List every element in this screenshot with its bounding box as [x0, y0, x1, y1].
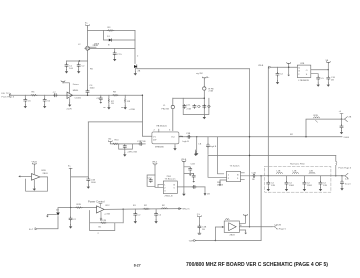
svg-text:700/800 MHZ RF BOARD VER C SCH: 700/800 MHZ RF BOARD VER C SCHEMATIC (PA… — [186, 262, 328, 268]
svg-text:high B: high B — [210, 146, 217, 148]
svg-text:Harmonic Filter: Harmonic Filter — [290, 162, 305, 165]
wire to tx switch — [208, 137, 224, 174]
capacitor C9 — [87, 178, 90, 182]
wire loop — [119, 144, 133, 149]
svg-text:2-B.B: 2-B.B — [344, 137, 350, 139]
capacitor C16 series — [187, 135, 191, 138]
svg-text:1000: 1000 — [91, 182, 97, 184]
svg-text:From Page 5: From Page 5 — [339, 166, 352, 169]
capacitor C15 series — [139, 142, 143, 145]
inductor L1 — [172, 98, 174, 105]
capacitor C7 series — [53, 94, 57, 97]
svg-text:R2B: R2B — [77, 204, 82, 206]
svg-text:2-B: 2-B — [345, 178, 349, 180]
svg-text:C7.5: C7.5 — [117, 54, 122, 56]
capacitor C19 — [149, 179, 152, 183]
ground — [121, 106, 123, 108]
power flag bottom — [197, 216, 201, 218]
svg-text:PA Module: PA Module — [157, 125, 168, 128]
svg-text:MHB2B5: MHB2B5 — [155, 147, 165, 149]
bias filter sub — [108, 141, 112, 143]
wire control rails — [208, 156, 336, 178]
svg-text:2.5B: 2.5B — [209, 91, 214, 93]
op-amp U2 — [32, 174, 41, 181]
node junction arrow — [204, 187, 206, 193]
ground — [113, 57, 116, 61]
svg-text:TX Beacon: TX Beacon — [165, 179, 177, 181]
wire supply — [155, 166, 163, 188]
wire RX down-leg — [335, 156, 337, 176]
ground beacon top — [195, 150, 197, 152]
wire bias vertical — [87, 122, 89, 177]
wire pc input rail — [58, 208, 97, 213]
svg-text:2TXB: 2TXB — [140, 141, 146, 143]
wire beacon out rail — [177, 186, 205, 188]
resistor R8 series — [112, 94, 119, 96]
ground — [239, 230, 245, 232]
capacitor C34 — [155, 209, 157, 213]
capacitor C6 — [44, 95, 46, 98]
ground — [100, 212, 102, 217]
capacitor C35 — [198, 218, 200, 225]
svg-text:2.5B: 2.5B — [187, 109, 192, 111]
resistor R11 — [76, 207, 83, 209]
wire long vertical B — [260, 176, 262, 241]
wire beacon left pins — [158, 184, 163, 187]
node 2TX arrow — [143, 143, 146, 145]
ground — [68, 103, 71, 107]
svg-text:+2.5B: +2.5B — [104, 214, 110, 216]
node junction — [196, 136, 197, 137]
svg-text:2B2-B: 2B2-B — [217, 185, 224, 187]
svg-text:+-2DB: +-2DB — [129, 109, 136, 111]
inductor L8b — [336, 161, 337, 165]
wire driver gnd leg — [69, 99, 71, 103]
node fork out — [341, 118, 342, 119]
svg-text:L7B05B2B: L7B05B2B — [298, 80, 309, 82]
wire to PA input — [142, 95, 152, 136]
inductor L4 — [314, 117, 320, 118]
resistor R1 — [107, 30, 114, 32]
node output arrow — [179, 208, 181, 210]
capacitor C17 — [207, 137, 209, 144]
svg-text:15B1: 15B1 — [307, 185, 313, 187]
resistor R13 — [143, 208, 150, 210]
wire Q1 aux right — [90, 46, 96, 48]
power stub — [340, 114, 343, 120]
IC U4 TX switch — [227, 171, 241, 181]
capacitor C18 series — [252, 174, 256, 177]
svg-text:To Page 5: To Page 5 — [276, 229, 287, 231]
wire long vertical A — [267, 67, 269, 176]
wire top rail — [88, 30, 136, 32]
wire detect rail — [306, 119, 342, 137]
wire — [37, 217, 58, 229]
svg-text:+NR 2.5B: +NR 2.5B — [127, 152, 137, 154]
power flag — [244, 214, 248, 216]
capacitor C20 — [184, 166, 190, 169]
capacitor C12 — [193, 104, 196, 108]
svg-text:2B0B: 2B0B — [93, 45, 99, 47]
svg-text:VR-B: VR-B — [258, 65, 264, 67]
inductor L3 wavy — [180, 135, 183, 138]
capacitor C30 — [320, 176, 322, 182]
svg-text:Driver: Driver — [73, 83, 79, 86]
capacitor C8 — [100, 95, 102, 97]
svg-text:FB2.5B: FB2.5B — [162, 108, 170, 110]
capacitor C32 — [70, 208, 72, 217]
capacitor C22 series — [192, 185, 196, 188]
svg-text:NR-2.5: NR-2.5 — [183, 208, 191, 210]
IC U6 regulator — [297, 65, 311, 77]
ground — [124, 149, 126, 153]
svg-text:2W1: 2W1 — [167, 176, 172, 178]
svg-text:2W01-B: 2W01-B — [165, 195, 173, 197]
svg-text:2-DR: 2-DR — [67, 109, 73, 111]
ground — [33, 180, 35, 187]
wire inner loop — [104, 31, 136, 41]
wire gate rail — [90, 47, 135, 49]
ground — [182, 192, 185, 196]
wire base — [47, 214, 56, 216]
wire regulator input — [271, 66, 297, 68]
ground — [220, 180, 227, 183]
wire source vertical — [87, 51, 89, 90]
inductor L7 — [309, 173, 315, 174]
svg-text:To ant: To ant — [345, 183, 351, 186]
capacitor C5 — [24, 95, 26, 98]
svg-text:high B: high B — [183, 141, 190, 143]
diode CR1 — [109, 39, 112, 42]
wire main RF line — [12, 94, 143, 96]
svg-text:B2B: B2B — [42, 170, 47, 172]
svg-text:2B03: 2B03 — [230, 235, 236, 237]
node antenna arrow — [342, 173, 348, 178]
ground — [134, 68, 136, 72]
wire PA output rail — [179, 136, 342, 138]
svg-text:15B1: 15B1 — [289, 185, 295, 187]
wire loop cap — [147, 175, 155, 186]
wire shunt leg — [196, 137, 198, 152]
capacitor C26 — [341, 119, 343, 125]
IC U5 TX beacon — [163, 181, 177, 194]
capacitor C3 — [114, 48, 116, 51]
svg-text:C1000: C1000 — [75, 97, 82, 99]
capacitor C28 — [286, 176, 288, 182]
svg-text:TX Switch: TX Switch — [230, 164, 241, 167]
inductor L6 — [293, 173, 299, 174]
wire PA gnd — [174, 144, 176, 147]
wire reg out — [311, 69, 329, 71]
wire drain vertical — [87, 27, 89, 45]
capacitor C13 — [203, 104, 206, 108]
op-amp U1 driver — [67, 92, 73, 99]
node junction — [87, 95, 88, 96]
wire interstage rail — [137, 68, 250, 70]
op-amp U7 power control — [97, 206, 105, 213]
power V+ top-left — [86, 25, 90, 27]
ground — [87, 185, 90, 189]
svg-text:R2B: R2B — [314, 115, 319, 117]
wire feedback box — [26, 177, 48, 191]
capacitor C25 — [311, 74, 318, 77]
ground — [287, 74, 290, 77]
svg-text:O: O — [306, 70, 308, 72]
svg-text:C3B: C3B — [186, 133, 191, 135]
wire input left — [20, 175, 32, 177]
node input connector — [10, 94, 12, 96]
svg-text:Out: Out — [171, 135, 175, 138]
power flag right — [326, 62, 330, 64]
capacitor C31 — [341, 176, 343, 181]
capacitor C21 — [184, 172, 194, 175]
svg-text:1000: 1000 — [90, 87, 96, 89]
wire — [288, 65, 290, 74]
inductor L9 — [161, 208, 167, 209]
wire supply vertical — [183, 163, 185, 192]
inductor L2 — [203, 79, 205, 86]
svg-text:12B: 12B — [271, 185, 275, 187]
wire driver supply — [63, 82, 69, 93]
svg-text:U2B: U2B — [300, 63, 305, 65]
wire riser to op-amp — [215, 240, 216, 241]
svg-text:L2B: L2B — [277, 170, 281, 172]
wire bias filter rail — [110, 142, 140, 145]
PA module U3 — [152, 132, 179, 144]
power flag mid — [287, 63, 291, 65]
svg-text:F.E. TX In: F.E. TX In — [2, 93, 12, 95]
svg-text:G: G — [298, 71, 300, 73]
capacitor C14 — [123, 145, 126, 149]
resistor R7 shunt — [108, 95, 110, 98]
power VR1 — [61, 81, 65, 83]
capacitor C27 — [267, 176, 269, 182]
transistor Q1 — [85, 46, 89, 50]
power VR-B final amp — [32, 163, 36, 165]
svg-text:L2B: L2B — [309, 170, 313, 172]
ground — [77, 70, 80, 74]
svg-text:12B: 12B — [323, 185, 327, 187]
capacitor C33 — [134, 209, 136, 212]
ground — [43, 104, 46, 108]
node filter out — [341, 175, 342, 176]
wire switch out — [241, 173, 253, 180]
resistor R9 shunt — [124, 95, 126, 98]
ground — [65, 70, 68, 74]
wire B+ branch — [71, 168, 89, 207]
power VR-5 beacon — [153, 163, 157, 165]
wire right branch vertical — [134, 31, 136, 64]
wire supply — [33, 166, 35, 174]
wire to filter — [256, 175, 261, 177]
capacitor C2 — [78, 61, 80, 64]
wire filter rail — [261, 175, 342, 177]
svg-text:VR-B: VR-B — [32, 161, 38, 163]
wire ALC line — [249, 69, 251, 227]
diode CR2 — [57, 213, 60, 216]
node osc rail — [173, 97, 205, 99]
capacitor C11 network — [183, 98, 209, 114]
capacitor C1 — [66, 61, 68, 64]
svg-text:C2B: C2B — [252, 173, 257, 175]
capacitor C4 series — [86, 90, 89, 94]
transistor Q2 — [134, 65, 137, 68]
power VR-B beacon — [182, 161, 186, 163]
svg-text:sig 2M: sig 2M — [196, 73, 203, 75]
svg-text:From Page 3: From Page 3 — [2, 96, 15, 99]
svg-text:R2.2B: R2.2B — [100, 220, 107, 222]
ground — [173, 147, 176, 151]
capacitor C24 — [327, 64, 329, 76]
inductor L5 — [277, 173, 283, 174]
capacitor C29 — [303, 176, 305, 182]
capacitor C23 — [277, 67, 279, 72]
svg-text:C.B 2B: C.B 2B — [274, 224, 281, 226]
svg-text:B+T: B+T — [29, 229, 34, 231]
svg-text:8-27: 8-27 — [134, 263, 141, 267]
wire bypass tap — [67, 60, 88, 62]
svg-text:C1B: C1B — [191, 163, 196, 165]
power B+ osc — [202, 77, 206, 79]
ground — [104, 106, 106, 108]
resistor R12 — [100, 222, 107, 224]
ground — [100, 101, 103, 104]
wire op-amp out — [239, 226, 272, 228]
wire bias rail — [88, 121, 142, 123]
ground — [195, 152, 198, 156]
op-amp U8 box — [224, 221, 239, 232]
node input arrow regulator — [269, 66, 271, 68]
resistor R10 — [112, 143, 119, 145]
svg-text:Power Control: Power Control — [88, 200, 105, 204]
svg-text:2B03: 2B03 — [43, 173, 49, 175]
svg-text:VR-B: VR-B — [181, 159, 187, 161]
ground — [24, 104, 27, 108]
wire feedback network — [90, 211, 124, 231]
ground — [203, 115, 206, 119]
svg-text:L2B: L2B — [293, 170, 297, 172]
wire pc output — [104, 208, 181, 211]
svg-text:MMG: MMG — [73, 90, 79, 92]
resistor R6 — [31, 94, 38, 96]
svg-text:VR-5: VR-5 — [152, 161, 158, 163]
svg-text:T-BP: T-BP — [189, 241, 194, 243]
wire PA top pins — [158, 129, 160, 132]
harmonic filter dashed box — [265, 166, 331, 192]
